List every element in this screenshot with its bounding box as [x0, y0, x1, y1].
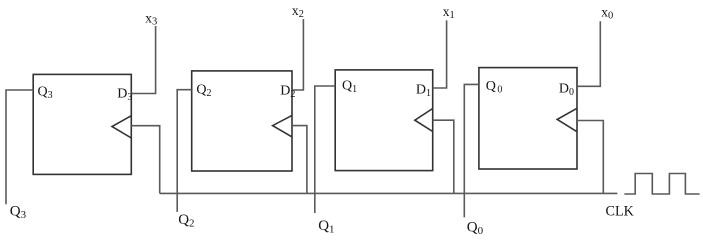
- svg-text:CLK: CLK: [606, 204, 635, 220]
